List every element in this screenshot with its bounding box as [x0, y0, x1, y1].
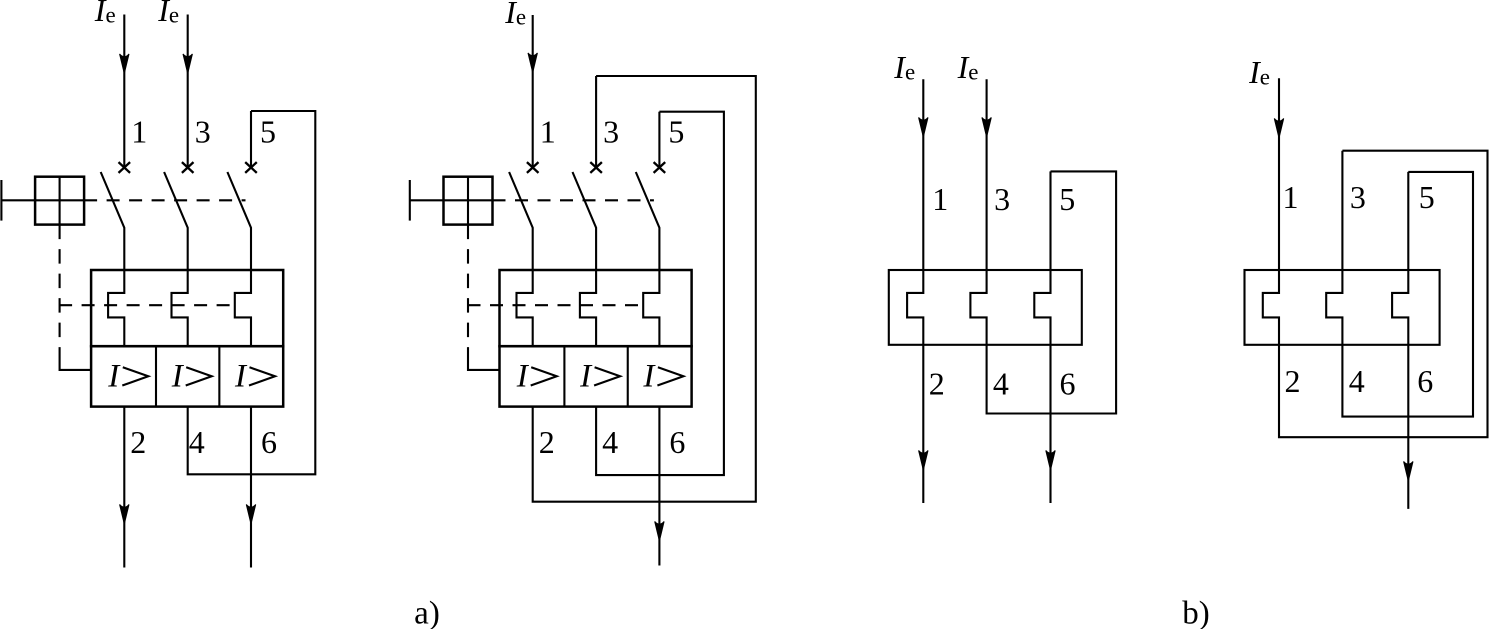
QF1-a2 output wire terminal 6: [658, 407, 660, 566]
svg-text:b): b): [1182, 596, 1210, 629]
KK1-b1 input arrowhead pole 1: [919, 118, 928, 138]
svg-text:I: I: [107, 359, 121, 395]
QF1-a2 linkage down from mechanism (dashed): [467, 225, 469, 361]
svg-text:5: 5: [668, 113, 684, 149]
QF1-a2 fixed contact mark pole 5: [654, 162, 666, 173]
QF1-a2 moving contact lever pole 1: [509, 172, 533, 270]
QF1-a1 magnetic release row: [91, 346, 283, 406]
KK1-b1 thermal element (bimetal heater) pole 2: [970, 270, 986, 345]
svg-text:2: 2: [929, 366, 945, 402]
QF1-a1 thermal element (bimetal heater) pole 1: [108, 270, 124, 346]
QF1-a1 operator link: [1, 199, 35, 201]
svg-text:6: 6: [261, 424, 277, 460]
svg-text:5: 5: [260, 113, 276, 149]
QF1-a1 wire into contact 5: [250, 111, 252, 168]
svg-text:6: 6: [1060, 366, 1076, 402]
QF1-a1 trip linkage to contacts (dashed): [84, 199, 245, 201]
QF1-a2 input wire to contact 1: [532, 15, 534, 168]
svg-text:I: I: [516, 359, 530, 395]
svg-text:3: 3: [994, 181, 1010, 217]
QF1-a1 fixed contact mark pole 5: [245, 162, 257, 173]
KK1-b2 loop wire terminal 2 to terminal 3: [1279, 151, 1488, 438]
KK1-b2 input arrowhead pole 1: [1274, 119, 1283, 139]
svg-text:I: I: [642, 359, 656, 395]
QF1-a1 operating mechanism box: [35, 177, 84, 225]
svg-text:2: 2: [130, 424, 146, 460]
QF1-a2 thermal trip bar (dashed): [468, 304, 645, 306]
svg-text:Ie: Ie: [157, 0, 179, 28]
svg-text:I: I: [171, 359, 185, 395]
QF1-a2 operator link: [410, 199, 444, 201]
QF1-a2 magnetic release row: [500, 346, 692, 406]
QF1-a2 moving contact lever pole 5: [636, 172, 660, 270]
svg-text:1: 1: [131, 113, 147, 149]
svg-text:1: 1: [540, 113, 556, 149]
svg-text:I: I: [579, 359, 593, 395]
QF1-a1 input wire to contact 3: [187, 15, 189, 168]
KK1-b1 loop wire terminal 4 to terminal 5: [987, 171, 1117, 413]
svg-text:Ie: Ie: [94, 0, 116, 28]
QF1-a1 thermal element (bimetal heater) pole 3: [235, 270, 251, 346]
svg-text:4: 4: [602, 424, 618, 460]
svg-text:1: 1: [1283, 179, 1299, 215]
KK1-b2 output wire terminal 6: [1407, 345, 1409, 509]
KK1-b1 output arrowhead terminal 6: [1046, 451, 1055, 471]
QF1-a2 fixed contact mark pole 1: [527, 162, 539, 173]
QF1-a1 fixed contact mark pole 1: [119, 162, 131, 173]
KK1-b1 output wire terminal 2: [922, 345, 924, 503]
KK1-b2 thermal element (bimetal heater) pole 2: [1326, 270, 1342, 345]
svg-text:3: 3: [603, 113, 619, 149]
svg-text:6: 6: [669, 424, 685, 460]
QF1-a1 thermal overload release block: [91, 270, 283, 346]
svg-text:1: 1: [932, 181, 948, 217]
QF1-a2 input arrowhead pole 1: [528, 53, 537, 73]
KK1-b1 thermal element (bimetal heater) pole 3: [1034, 270, 1050, 345]
QF1-a2 loop wire terminal 2 to terminal 3: [533, 76, 756, 502]
QF1-a1 moving contact lever pole 3: [164, 172, 188, 270]
QF1-a2 thermal element (bimetal heater) pole 3: [643, 270, 659, 346]
QF1-a2 trip linkage to contacts (dashed): [493, 199, 654, 201]
QF1-a2 moving contact lever pole 3: [573, 172, 597, 270]
QF1-a2 manual operator stem tick: [409, 180, 411, 221]
svg-text:a): a): [414, 596, 440, 629]
QF1-a2 output arrowhead terminal 6: [655, 522, 664, 542]
QF1-a1 linkage to release block: [60, 361, 92, 370]
KK1-b2 wire into terminal 3: [1341, 151, 1343, 270]
KK1-b1 input wire terminal 1: [922, 79, 924, 270]
QF1-a1 fixed contact mark pole 3: [182, 162, 194, 173]
KK1-b2 input wire terminal 1: [1278, 78, 1280, 270]
QF1-a2 loop wire terminal 4 to terminal 5: [596, 112, 724, 475]
QF1-a2 fixed contact mark pole 3: [590, 162, 602, 173]
QF1-a1 output arrowhead terminal 6: [246, 505, 255, 525]
QF1-a1 loop wire terminal 4 to terminal 5: [188, 111, 316, 474]
QF1-a1 thermal trip bar (dashed): [59, 304, 236, 306]
svg-text:4: 4: [993, 366, 1009, 402]
QF1-a1 output arrowhead terminal 2: [120, 505, 129, 525]
svg-text:3: 3: [1350, 179, 1366, 215]
svg-text:Ie: Ie: [957, 49, 979, 85]
svg-text:Ie: Ie: [893, 49, 915, 85]
QF1-a2 thermal overload release block: [500, 270, 692, 346]
QF1-a2 operating mechanism box: [444, 177, 493, 225]
KK1-b2 thermal overload relay block: [1245, 270, 1440, 345]
KK1-b1 output wire terminal 6: [1049, 345, 1051, 503]
QF1-a2 thermal element (bimetal heater) pole 2: [580, 270, 596, 346]
QF1-a1 input arrowhead pole 1: [120, 54, 129, 74]
svg-text:2: 2: [1285, 363, 1301, 399]
QF1-a1 output wire terminal 2: [123, 407, 125, 568]
KK1-b2 wire into terminal 5: [1407, 172, 1409, 270]
svg-text:2: 2: [539, 424, 555, 460]
QF1-a1 linkage down from mechanism (dashed): [59, 225, 61, 361]
svg-text:Ie: Ie: [504, 0, 526, 30]
KK1-b1 wire into terminal 5: [1049, 171, 1051, 270]
svg-text:I: I: [234, 359, 248, 395]
KK1-b2 thermal element (bimetal heater) pole 1: [1263, 270, 1279, 345]
svg-text:5: 5: [1419, 179, 1435, 215]
QF1-a2 wire into contact 5: [658, 112, 660, 168]
KK1-b2 output arrowhead terminal 6: [1404, 462, 1413, 482]
QF1-a2 wire into contact 3: [595, 76, 597, 168]
KK1-b2 loop wire terminal 4 to terminal 5: [1342, 172, 1473, 417]
svg-text:6: 6: [1417, 363, 1433, 399]
QF1-a1 moving contact lever pole 5: [227, 172, 251, 270]
svg-text:Ie: Ie: [1248, 54, 1270, 90]
KK1-b1 output arrowhead terminal 2: [919, 451, 928, 471]
KK1-b2 thermal element (bimetal heater) pole 3: [1392, 270, 1408, 345]
QF1-a2 thermal element (bimetal heater) pole 1: [517, 270, 533, 346]
KK1-b1 thermal element (bimetal heater) pole 1: [907, 270, 923, 345]
svg-text:5: 5: [1059, 181, 1075, 217]
QF1-a1 moving contact lever pole 1: [101, 172, 125, 270]
KK1-b1 input wire terminal 3: [986, 79, 988, 270]
QF1-a1 input arrowhead pole 3: [183, 54, 192, 74]
QF1-a1 input wire to contact 1: [123, 15, 125, 168]
KK1-b1 thermal overload relay block: [889, 270, 1082, 345]
QF1-a1 thermal element (bimetal heater) pole 2: [172, 270, 188, 346]
svg-text:4: 4: [189, 424, 205, 460]
QF1-a1 output wire terminal 6: [250, 407, 252, 568]
svg-text:3: 3: [195, 113, 211, 149]
svg-text:4: 4: [1349, 363, 1365, 399]
QF1-a2 linkage to release block: [468, 361, 500, 370]
KK1-b1 input arrowhead pole 3: [982, 118, 991, 138]
QF1-a1 manual operator stem tick: [0, 180, 2, 221]
